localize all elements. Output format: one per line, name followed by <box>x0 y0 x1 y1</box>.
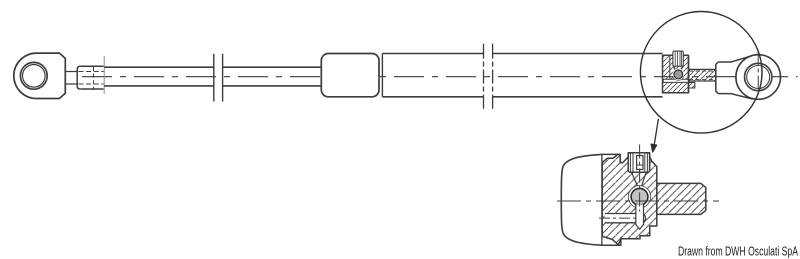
tube top edge to rear flange <box>602 154 623 162</box>
right eye hole inner <box>747 66 770 89</box>
neck lines between eye and stud <box>65 72 78 85</box>
mounting stud (right, sectioned) <box>657 183 706 214</box>
tube bottom edge under block <box>602 237 621 245</box>
vertical drilled hole below ball <box>636 205 644 230</box>
stud cone to ball <box>632 172 647 186</box>
gas valve screw on cap <box>673 51 683 66</box>
ball seat <box>672 69 684 81</box>
cylinder tube left edge <box>381 54 383 97</box>
right eye ring outer <box>736 55 781 100</box>
stud vertical dashes <box>93 67 95 89</box>
right end cap sectioned block <box>663 55 689 93</box>
left eye hole outer circle <box>20 62 47 89</box>
right eye vertical centerline <box>757 52 759 103</box>
tube right edge <box>601 154 603 245</box>
bottom detail horizontal centerline (ball axis) <box>557 200 719 202</box>
ball seat (bottom detail) <box>628 186 650 208</box>
rod break line right <box>222 54 224 102</box>
cylinder end cap (left, rounded) <box>321 54 379 97</box>
detail circle <box>640 12 762 134</box>
right cap cross hole white band <box>663 79 688 82</box>
cap inner bore line <box>669 55 671 79</box>
cross-drilled hole (white slot) <box>605 214 646 223</box>
threaded rod stub (sectioned) <box>689 69 716 81</box>
ball (top detail) <box>674 70 683 79</box>
cross hole centerline <box>599 217 637 219</box>
rod stub thread dashes <box>689 71 716 79</box>
right eye hole outer <box>745 63 772 90</box>
svg-text:Drawn from DWH Osculati SpA: Drawn from DWH Osculati SpA <box>678 245 798 259</box>
tube break line right (phantom) <box>492 44 494 109</box>
cylinder tube upper line <box>382 53 662 55</box>
right cap face line <box>688 55 690 93</box>
cylinder tube lower line <box>382 96 662 98</box>
threaded stud at left eye <box>80 66 103 89</box>
right cap bottom lip <box>689 82 695 88</box>
mounting block (sectioned) <box>602 153 657 245</box>
main centerline <box>82 76 798 78</box>
stud thread dashed lines <box>79 71 104 73</box>
stud (threaded, bottom detail) <box>628 153 649 173</box>
ball (bottom detail) <box>631 188 648 205</box>
left eye fitting outer body <box>14 53 65 98</box>
piston rod lower line <box>104 85 321 87</box>
rod break line left <box>213 54 215 102</box>
tube end (side view barrel) <box>561 154 602 245</box>
valve seat cone <box>673 66 682 71</box>
washer face <box>715 67 717 88</box>
bottom detail vertical centerline <box>639 145 641 212</box>
thin section line at rod start <box>103 56 105 94</box>
leader arrow <box>654 119 658 145</box>
tube break line left (phantom) <box>483 44 485 109</box>
piston rod upper line <box>104 66 321 68</box>
right eye neck <box>716 56 753 99</box>
left eye hole inner circle <box>23 65 46 88</box>
